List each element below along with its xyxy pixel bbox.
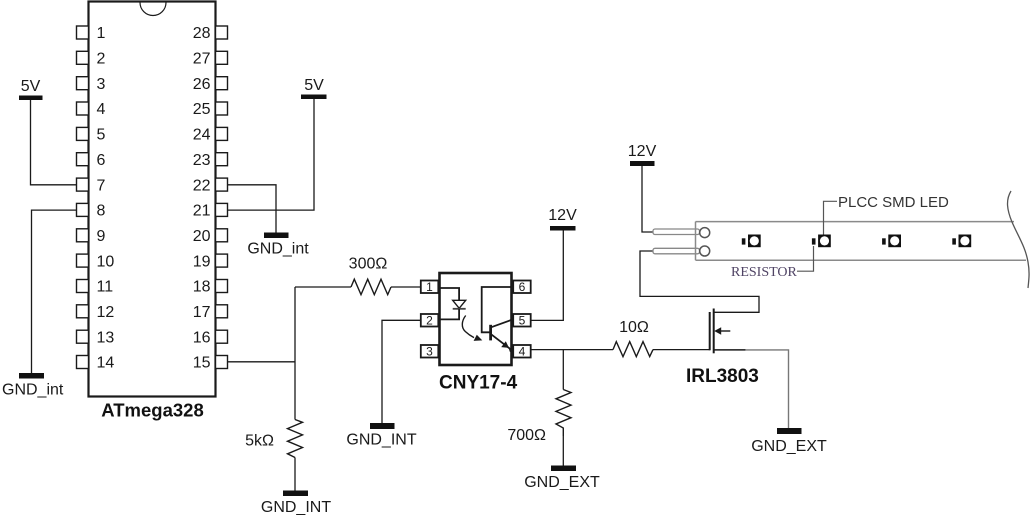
svg-text:20: 20 <box>193 228 211 245</box>
resistor R1 300ohm <box>349 256 391 295</box>
U2 internal LED anode wire <box>438 288 459 300</box>
svg-text:5: 5 <box>519 314 526 328</box>
svg-text:GND_INT: GND_INT <box>261 499 331 516</box>
ground GND_INT (under R2) <box>261 491 331 517</box>
U2 transistor base wire from pin6 <box>482 287 514 332</box>
wire 5V to pin21 <box>228 99 315 210</box>
svg-text:11: 11 <box>97 279 114 296</box>
LED DS4 <box>952 235 971 248</box>
svg-text:5V: 5V <box>21 78 41 95</box>
svg-text:19: 19 <box>193 253 211 270</box>
LED strip torn edge <box>1008 191 1030 288</box>
svg-text:5: 5 <box>97 127 106 144</box>
svg-text:6: 6 <box>97 152 106 169</box>
svg-text:700Ω: 700Ω <box>507 427 546 444</box>
U1 right pin numbers 28-15 <box>193 25 211 372</box>
U2 pin numbers <box>426 280 526 359</box>
svg-text:1: 1 <box>426 280 433 294</box>
Q1 drain wire up to LED strip connector <box>640 251 759 312</box>
svg-text:3: 3 <box>426 345 433 359</box>
LED DS3 <box>882 235 901 248</box>
U2 light arrow <box>462 316 482 341</box>
svg-text:26: 26 <box>193 76 211 93</box>
U2 internal LED diode D1 <box>453 300 466 308</box>
svg-text:18: 18 <box>193 279 211 296</box>
resistor R3 700ohm <box>507 390 571 445</box>
transistor Q1 IRL3803 gate line <box>709 312 711 350</box>
node A vertical wire <box>294 287 296 420</box>
LED DS2 <box>812 235 831 248</box>
svg-text:12V: 12V <box>628 143 657 160</box>
ground GND_EXT (under R3) <box>524 466 600 492</box>
svg-text:17: 17 <box>193 304 211 321</box>
U1 left pin numbers 1-14 <box>97 25 115 372</box>
svg-text:28: 28 <box>193 25 211 42</box>
wire node B down to R3 <box>562 350 564 390</box>
svg-text:16: 16 <box>193 329 211 346</box>
U1 right pin squares 28-15 <box>216 26 228 369</box>
svg-text:25: 25 <box>193 101 211 118</box>
wire node A to R1 <box>295 286 351 288</box>
opto U2 CNY17-4 body <box>440 273 512 365</box>
svg-text:4: 4 <box>97 101 106 118</box>
svg-text:300Ω: 300Ω <box>349 256 388 273</box>
svg-text:PLCC SMD LED: PLCC SMD LED <box>838 194 949 211</box>
svg-text:22: 22 <box>193 177 211 194</box>
U2 pin squares right <box>513 281 531 358</box>
RESISTOR callout <box>731 246 814 280</box>
LED strip outline <box>696 222 1027 261</box>
ground GND_int (pin22) <box>247 233 309 258</box>
svg-text:27: 27 <box>193 51 211 68</box>
svg-text:6: 6 <box>519 280 526 294</box>
ground GND_EXT (Q1 source) <box>751 428 827 455</box>
svg-text:5kΩ: 5kΩ <box>245 433 274 450</box>
connector pin 2 lug <box>653 246 710 256</box>
svg-text:IRL3803: IRL3803 <box>686 366 759 387</box>
svg-text:13: 13 <box>97 329 115 346</box>
resistor R4 10ohm <box>613 319 653 357</box>
wire R4 to Q1 gate <box>653 349 710 351</box>
svg-text:21: 21 <box>193 203 211 220</box>
svg-text:3: 3 <box>97 76 106 93</box>
svg-text:7: 7 <box>97 177 106 194</box>
svg-text:1: 1 <box>97 25 106 42</box>
svg-text:GND_EXT: GND_EXT <box>751 438 827 455</box>
wire pin8 to GND_int <box>32 210 77 373</box>
connector pin 1 lug <box>653 228 710 238</box>
wire 12V to opto pin5 <box>531 231 564 321</box>
Q1 body arrow <box>714 327 730 334</box>
power symbol 5V (second) <box>301 77 327 99</box>
svg-text:10: 10 <box>97 253 115 270</box>
U1 left pin squares 1-14 <box>77 26 89 369</box>
wire R2 to GND_INT <box>294 458 296 491</box>
ground GND_int (left) <box>2 373 64 399</box>
svg-text:GND_INT: GND_INT <box>346 432 416 449</box>
svg-text:5V: 5V <box>304 77 324 94</box>
U2 transistor collector <box>491 320 514 327</box>
svg-text:23: 23 <box>193 152 211 169</box>
svg-text:2: 2 <box>426 314 433 328</box>
Q1 channel line <box>713 309 715 354</box>
U2 internal LED cathode wire <box>438 309 459 320</box>
svg-text:24: 24 <box>193 127 211 144</box>
svg-text:14: 14 <box>97 355 115 372</box>
Q1 source wire to GND_EXT <box>714 349 746 351</box>
svg-text:12: 12 <box>97 304 115 321</box>
svg-text:CNY17-4: CNY17-4 <box>439 373 518 394</box>
svg-text:GND_EXT: GND_EXT <box>524 474 600 491</box>
svg-text:10Ω: 10Ω <box>619 319 649 336</box>
U1 notch <box>140 3 166 16</box>
U2 pin squares left <box>421 281 439 358</box>
svg-text:12V: 12V <box>548 207 577 224</box>
wire opto pin4 to R4 and gate node <box>531 349 613 351</box>
wire opto pin2 to GND_INT <box>382 320 421 423</box>
LED DS1 <box>742 235 761 248</box>
svg-text:RESISTOR: RESISTOR <box>731 265 798 280</box>
power symbol 5V (left) <box>19 78 43 100</box>
wire pin15 to node A <box>228 361 296 363</box>
wire R3 to GND_EXT <box>562 436 564 466</box>
svg-text:GND_int: GND_int <box>2 382 64 399</box>
svg-text:4: 4 <box>519 345 526 359</box>
resistor R2 5k <box>245 420 302 458</box>
svg-text:2: 2 <box>97 51 106 68</box>
svg-text:ATmega328: ATmega328 <box>101 400 203 421</box>
power symbol 12V (strip) <box>628 143 657 166</box>
PLCC SMD LED callout <box>824 194 950 235</box>
svg-text:15: 15 <box>193 355 211 372</box>
U2 transistor emitter <box>491 334 514 351</box>
wire 5V to pin7 <box>31 100 77 185</box>
U2 transistor Q base bar <box>489 325 492 341</box>
svg-text:9: 9 <box>97 228 106 245</box>
U2 emitter arrowhead <box>501 341 509 348</box>
wire R1 to opto pin1 <box>391 286 421 288</box>
IC U1 ATmega328 body <box>89 2 216 397</box>
wire 12V to connector pin1 <box>642 166 653 232</box>
wire pin22 to GND_int <box>228 185 277 233</box>
U2 internal LED cathode bar <box>453 308 466 310</box>
power symbol 12V (opto) <box>548 207 577 231</box>
svg-text:GND_int: GND_int <box>247 241 309 258</box>
svg-text:8: 8 <box>97 203 106 220</box>
ground GND_INT (opto pin2) <box>346 423 416 449</box>
